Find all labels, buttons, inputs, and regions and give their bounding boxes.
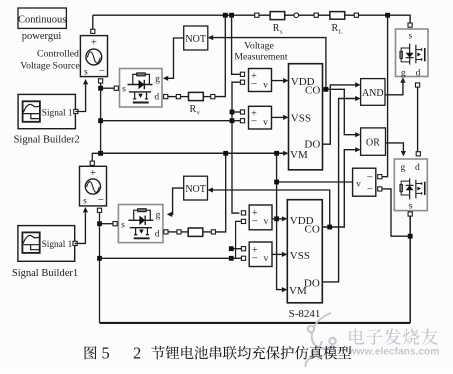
svg-text:VSS: VSS — [290, 250, 310, 262]
wire Q1 drain to Rv1 — [168, 96, 177, 98]
wire DO2 to AND in2 — [322, 99, 356, 282]
svg-text:d: d — [415, 163, 420, 173]
node rail to voltmeter tap — [385, 13, 390, 18]
Controlled Voltage Source label — [20, 49, 80, 72]
svg-text:Signal Builder1: Signal Builder1 — [12, 268, 78, 279]
wire Rv2 up to mid rail — [216, 153, 226, 232]
node rail2 to v-meter branch — [274, 151, 279, 156]
node mid to rail1 — [98, 118, 103, 123]
node rail2 to Rv2 — [223, 151, 228, 156]
node mid to rail2 — [98, 151, 103, 156]
svg-text:VM: VM — [289, 285, 307, 297]
wire stub VM4 plus — [231, 248, 241, 250]
svg-text:v: v — [263, 118, 268, 128]
voltmeter V5 (mirrored) — [353, 168, 382, 196]
node Q4 source / voltmeter — [408, 234, 413, 239]
watermark logo — [306, 313, 336, 367]
svg-text:s: s — [83, 197, 87, 207]
svg-text:OR: OR — [366, 137, 380, 148]
svg-text:−: − — [252, 253, 258, 265]
wire Q2 drain to Rv2 — [168, 231, 177, 233]
node mid column to VM2 plus — [230, 110, 235, 115]
svg-text:Signal Builder2: Signal Builder2 — [14, 135, 80, 146]
controlled voltage source V2 — [80, 161, 107, 212]
wire mid rail 2 (to chip1 VM) — [101, 152, 284, 154]
wire RL to port — [345, 14, 355, 16]
node top rail tap A — [223, 13, 228, 18]
wire mid rail 1 (to VM2 minus) — [101, 120, 232, 122]
wire V5 minus to Q4 source — [382, 189, 410, 236]
wire circle to port — [299, 14, 315, 16]
transistor Q3 (MOSFET top right) — [396, 23, 429, 87]
resistor Rv1 — [189, 92, 204, 116]
voltmeter VM4 — [241, 242, 272, 267]
wire V5 plus up to top rail — [382, 15, 388, 177]
svg-text:R: R — [190, 104, 197, 115]
watermark text 电子发烧友 — [349, 328, 438, 345]
svg-text:+: + — [91, 37, 97, 49]
wire SB2 to V1 s input — [75, 85, 85, 112]
wire stub VM2 minus — [232, 120, 240, 122]
node source1 minus junction — [98, 86, 103, 91]
svg-text:−: − — [367, 171, 373, 183]
svg-text:v: v — [356, 180, 361, 190]
svg-text:CO: CO — [305, 223, 320, 235]
svg-text:d: d — [416, 68, 421, 78]
caption 图5 2节锂电池串联均充保护仿真模型 — [85, 343, 352, 362]
svg-text:−: − — [252, 216, 258, 228]
logic NOT2 — [184, 176, 208, 200]
wire DO1 to AND in1 — [323, 85, 356, 144]
wire OR out to Q4 gate — [386, 143, 404, 151]
svg-text:Voltage Source: Voltage Source — [20, 61, 80, 72]
resistor Rv2 — [188, 228, 203, 236]
wire top rail — [93, 14, 255, 16]
svg-text:v: v — [264, 254, 269, 264]
svg-text:L: L — [339, 29, 343, 36]
source block Signal Builder2 — [18, 94, 78, 128]
svg-text:s: s — [408, 32, 412, 42]
svg-text:powergui: powergui — [22, 31, 62, 42]
wire VM3- vertical / dots on rail — [229, 256, 234, 261]
wire top rail tap B to VM1 plus — [232, 15, 241, 74]
svg-text:d: d — [154, 93, 159, 103]
port circle between Rs and RL — [294, 13, 299, 18]
node mid column to VM2 minus — [230, 118, 235, 123]
wire CO1 out with junction — [323, 89, 356, 134]
svg-text:g: g — [155, 75, 160, 85]
svg-text:Measurement: Measurement — [234, 52, 288, 63]
wire VM3 minus down to cell2 rail — [236, 221, 242, 258]
wire VM1 output to chip1 VDD — [272, 80, 285, 82]
svg-text:g: g — [401, 163, 406, 173]
svg-text:2: 2 — [133, 343, 141, 362]
wire NOT2 output to Q2 gate — [169, 188, 184, 214]
voltmeter VM1 — [240, 69, 271, 92]
wire SB1 to V2 s input — [75, 213, 86, 244]
svg-text:CO: CO — [305, 84, 320, 96]
node top rail tap B — [229, 13, 234, 18]
transistor Q2 (MOSFET) — [113, 205, 168, 243]
svg-text:Signal 1: Signal 1 — [42, 240, 73, 250]
svg-text:S-8241: S-8241 — [289, 308, 321, 320]
logic OR — [361, 128, 386, 155]
source block Signal Builder1 — [18, 226, 77, 262]
resistor RL — [330, 12, 345, 36]
svg-text:5: 5 — [102, 343, 110, 362]
node cell2 bottom rail — [97, 256, 102, 261]
wire Q1 source to mid node — [101, 87, 115, 89]
wire port to Rs — [259, 14, 270, 16]
wire AND out to Q3 gate — [385, 83, 403, 95]
wire rail to Q3 source — [359, 15, 411, 23]
svg-text:NOT: NOT — [185, 184, 206, 195]
port before RL — [314, 13, 318, 17]
port after RL — [354, 13, 358, 17]
svg-text:s: s — [122, 85, 126, 95]
voltmeter VM2 — [240, 106, 271, 129]
wire Q2 source to source2 minus net — [100, 223, 114, 225]
voltmeter VM3 — [241, 205, 272, 230]
wire V1 plus to top rail — [92, 15, 94, 29]
svg-text:g: g — [156, 211, 161, 221]
wire V5 input from mid net — [277, 181, 353, 183]
resistor Rs — [270, 12, 285, 36]
logic AND — [361, 79, 385, 106]
svg-text:s: s — [409, 202, 413, 212]
wire NOT1 output to Q1 gate — [165, 38, 184, 78]
svg-text:VSS: VSS — [291, 113, 311, 125]
svg-text:s: s — [121, 221, 125, 231]
wire VM2 output to chip1 VSS — [272, 116, 285, 118]
wire VM3 out to chip2 VDD — [272, 218, 283, 220]
svg-text:Controlled: Controlled — [37, 49, 79, 60]
svg-text:g: g — [401, 68, 406, 78]
op chip U1 S-8241 — [289, 64, 323, 170]
wire cell2 bottom rail — [100, 257, 242, 259]
powergui block (Continuous) — [18, 8, 66, 28]
wire Q3 drain to Q4 drain — [417, 87, 419, 152]
controlled voltage source V1 — [80, 29, 107, 83]
transistor Q4 (MOSFET right) — [394, 152, 427, 216]
svg-text:NOT: NOT — [185, 34, 206, 45]
svg-text:−: − — [251, 78, 257, 90]
wire CO1 to NOT1 input — [210, 38, 326, 90]
svg-text:−: − — [99, 65, 105, 77]
wire CO2 out to OR in2 — [322, 150, 356, 227]
svg-text:Continuous: Continuous — [18, 15, 66, 26]
wire source1 minus down to source2 plus — [92, 83, 100, 161]
svg-text:R: R — [332, 23, 339, 34]
wire port to RL — [318, 14, 330, 16]
transistor Q1 (MOSFET) — [114, 69, 168, 108]
svg-text:s: s — [84, 68, 88, 78]
logic NOT1 — [184, 26, 208, 50]
svg-text:www.elecfans.com: www.elecfans.com — [348, 347, 440, 358]
wire source2 minus vertical — [99, 212, 101, 323]
wire Q4 source down to bottom rail — [409, 216, 411, 323]
wire stub VM2 plus — [232, 111, 240, 113]
svg-text:−: − — [367, 184, 373, 196]
svg-text:d: d — [155, 230, 160, 240]
svg-text:+: + — [90, 167, 96, 179]
wire mid branch down (v feed / chip2 VM) — [277, 153, 283, 289]
svg-text:v: v — [263, 81, 268, 91]
wire VM4 out to chip2 VSS — [272, 253, 283, 255]
svg-text:−: − — [251, 116, 257, 128]
svg-text:−: − — [98, 194, 104, 206]
wire Rs to node circle — [285, 14, 294, 16]
wire VM1 minus down mid column — [232, 82, 240, 213]
svg-text:Voltage: Voltage — [244, 41, 274, 52]
wire bottom rail — [100, 322, 411, 324]
svg-text:Signal 1: Signal 1 — [42, 109, 73, 119]
svg-text:R: R — [273, 23, 280, 34]
Voltage Measurement label — [234, 41, 288, 63]
port between rail and Rs — [255, 13, 259, 17]
wire CO2 to NOT2 input — [209, 190, 330, 227]
svg-text:VM: VM — [290, 149, 308, 161]
op chip U2 S-8241 — [287, 200, 322, 303]
svg-text:AND: AND — [362, 88, 384, 99]
wire Rv1 up to top rail — [215, 15, 225, 96]
svg-text:v: v — [264, 217, 269, 227]
